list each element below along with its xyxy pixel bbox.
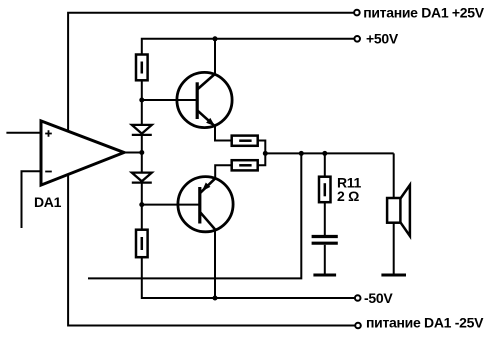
svg-text:DA1: DA1 [34,194,62,210]
svg-text:питание DA1 -25V: питание DA1 -25V [366,314,484,330]
svg-text:питание DA1 +25V: питание DA1 +25V [363,4,485,20]
svg-text:-50V: -50V [364,290,393,306]
svg-text:+50V: +50V [366,31,399,47]
svg-text:2 Ω: 2 Ω [337,188,359,204]
